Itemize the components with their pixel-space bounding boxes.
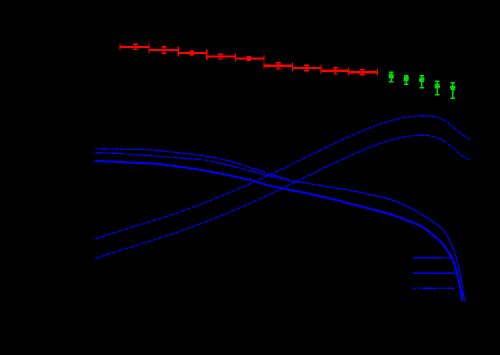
red data point 1 x-error bar end caps [120,44,149,51]
green data point 5 asterisk marker [450,86,456,90]
blue model curve R1 (fine-dashed, rising to peak then hook down) [95,116,470,239]
red data point 1 x-error bar [120,46,149,48]
red data point 8 x-error bar end caps [321,68,349,75]
red data point 9 x-error bar end caps [349,69,378,76]
legend sample line 1 (long-dash style) [413,257,450,259]
red data point 9 y-error bar with caps [360,70,365,75]
red data point 8 y-error bar with caps [333,68,338,74]
red data point 7 y-error bar with caps [304,65,309,70]
green data point 2 asterisk marker [403,77,409,81]
green data point 3 asterisk marker [419,78,425,82]
red data point 3 x-error bar [178,52,206,54]
red data point 3 y-error bar with caps [189,51,194,55]
red data point 9 x-error bar [349,71,378,73]
green data point 4 asterisk marker [434,84,440,88]
blue model curve R2 (fine-dashed, rising to peak then hook down) [95,135,470,258]
green data point 1 asterisk marker [388,74,394,78]
red data point 4 x-error bar [207,55,236,57]
red data point 3 x-error bar end caps [178,50,206,57]
red data point 5 x-error bar [236,57,265,59]
red data point 5 y-error bar with caps [246,57,251,61]
green data point 2 error bar with caps [404,76,408,84]
red data point 7 x-error bar [293,67,322,69]
green data point 4 error bar with caps [435,81,439,95]
red data point 6 x-error bar [264,65,293,67]
red data point 4 x-error bar end caps [207,53,236,60]
legend sample line 2 (solid thin style) [413,272,455,274]
red data point 6 x-error bar end caps [264,63,293,70]
green data point 5 error bar with caps [451,83,455,99]
red data point 2 y-error bar with caps [162,47,167,53]
red data point 5 x-error bar end caps [236,55,265,62]
red data point 6 y-error bar with caps [276,63,281,69]
red data point 1 y-error bar with caps [133,44,138,49]
blue model curve D1 (dash-dot, descending then plunging) [95,148,466,301]
blue model curve D2 (long-dash, descending, merges with D1) [95,153,466,301]
red data point 2 x-error bar [149,49,178,51]
green data point 3 error bar with caps [420,76,424,88]
green data point 1 error bar with caps [389,72,393,81]
red data point 8 x-error bar [321,70,349,72]
red data point 2 x-error bar end caps [149,47,178,54]
red data point 7 x-error bar end caps [293,65,322,72]
red data point 4 y-error bar with caps [218,54,223,59]
blue model curve D3 (thick solid, descending then plunging) [95,161,463,301]
legend sample line 3 (dash-dot style) [413,287,454,289]
